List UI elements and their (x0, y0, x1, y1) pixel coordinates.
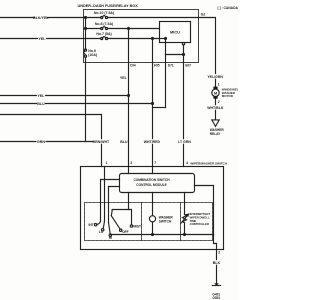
fuse No.7 (5A) (101, 37, 108, 40)
svg-text:F05: F05 (154, 63, 160, 67)
ground bus wire (110, 234, 213, 236)
bus wire below fuse No.9 down to GRN wire (85, 57, 87, 141)
junction node (bus tap on W1) (85, 17, 87, 19)
washer switch lower wire (152, 222, 154, 235)
svg-text:CONTROLLER: CONTROLLER (190, 222, 209, 226)
wire label YEL (mid) (37, 93, 45, 98)
svg-text:LT GRN: LT GRN (178, 140, 191, 144)
module bottom wire to controller (184, 193, 186, 215)
pivot-to-MIST link (112, 210, 131, 225)
wire W3 to MICU (107, 38, 159, 40)
svg-text:WHT/BLK: WHT/BLK (207, 106, 224, 110)
jog joining D-wire to pin7 wire (153, 107, 166, 109)
svg-text:UNDER–DASH FUSE/RELAY BOX: UNDER–DASH FUSE/RELAY BOX (78, 4, 139, 8)
dashed divider 2 (180, 203, 182, 241)
svg-text:YEL: YEL (39, 37, 47, 41)
fuse No.9 (10A) vertical (84, 49, 87, 57)
module left stub 1 (101, 180, 120, 222)
svg-text:OFF: OFF (122, 230, 128, 234)
svg-text:LO: LO (99, 230, 104, 234)
wire W3 stub into MICU with node (160, 38, 166, 40)
MICU bottom connector circle (182, 43, 184, 45)
svg-text:1: 1 (218, 82, 220, 86)
vertical wire x=152.5 (fuse No.7 to pin 7) (152, 39, 154, 167)
vertical bus wire x=85.5 (to fuse No.9) (85, 18, 87, 50)
washer switch circle (149, 216, 155, 222)
svg-text:D71: D71 (168, 63, 174, 67)
svg-text:[ ] : CANADA: [ ] : CANADA (218, 6, 239, 10)
svg-text:HI: HI (109, 236, 112, 240)
wire label BLK (212, 260, 221, 265)
wire label BLK/YEL (35, 15, 47, 20)
contact OFF (120, 229, 122, 231)
wire label GRN (bottom-left) (37, 139, 46, 144)
washer relay triangle (212, 120, 219, 127)
chassis ground symbol G401 (212, 283, 220, 285)
svg-text:4: 4 (186, 161, 188, 165)
svg-text:(10A): (10A) (88, 53, 97, 57)
svg-text:GRN/WHT: GRN/WHT (92, 140, 110, 144)
svg-text:G2: G2 (201, 12, 206, 16)
svg-text:BLK: BLK (213, 261, 221, 265)
svg-text:No.8 (7.5A): No.8 (7.5A) (95, 22, 113, 26)
svg-text:2: 2 (218, 251, 220, 255)
wire MICU branch to D-wire (166, 54, 184, 56)
svg-text:E07: E07 (185, 63, 191, 67)
svg-text:WHT/RED: WHT/RED (144, 140, 161, 144)
MICU box (160, 22, 191, 43)
svg-text:BLK/YEL: BLK/YEL (33, 16, 49, 20)
wire label YEL/GRN (208, 74, 222, 79)
wire mid BLU (0, 103, 153, 105)
wiper switch contact hooks (97, 221, 101, 224)
module left stub 2 (109, 187, 120, 223)
svg-text:BLU: BLU (120, 140, 128, 144)
svg-text:YEL: YEL (38, 94, 46, 98)
wire corner (left to pin 1) (0, 115, 102, 167)
svg-text:WIPER/WASHER SWITCH: WIPER/WASHER SWITCH (190, 161, 227, 165)
wiper arm pivot stem (110, 210, 113, 216)
svg-text:GRN: GRN (37, 140, 45, 144)
wire MICU output down to pin 4 (183, 45, 185, 167)
module right stub down to bus (195, 186, 214, 235)
module bottom wire to washer switch (152, 193, 154, 216)
svg-text:3: 3 (130, 161, 132, 165)
pin 3 wire into module (128, 167, 130, 174)
svg-text:MIST: MIST (133, 225, 141, 229)
svg-text:SWITCH: SWITCH (159, 219, 172, 223)
svg-text:2: 2 (218, 100, 220, 104)
wire W1 BLK/YEL (left to fuse No.10) (0, 17, 101, 19)
svg-text:No.7 (5A): No.7 (5A) (96, 32, 111, 36)
wire label YEL (top) (38, 36, 46, 41)
washer motor lower wire (215, 99, 217, 120)
wire label WHT/RED (145, 139, 159, 144)
dashed switch compartment box (85, 203, 213, 241)
washer motor top terminal (213, 87, 217, 89)
svg-text:No.10 (7.5A): No.10 (7.5A) (94, 11, 114, 15)
svg-text:MICU: MICU (170, 29, 180, 34)
pin 7 wire into module (152, 167, 154, 174)
wire W1 to G2 and down to washer motor (107, 18, 215, 87)
svg-text:G551: G551 (212, 296, 220, 300)
svg-text:MOTOR: MOTOR (222, 94, 234, 98)
wire label WHT/BLK (209, 105, 222, 110)
fuse No.8 (7.5A) (101, 27, 108, 30)
combination switch control module box (120, 174, 195, 193)
wire GRN (left) (0, 141, 102, 143)
wire W3 YEL (left to fuse No.7) (0, 38, 101, 40)
module bottom wire to MIST (128, 193, 130, 210)
svg-text:RELAY: RELAY (210, 132, 221, 136)
bus to ground exit wire (214, 235, 217, 284)
wire label LT GRN (179, 139, 190, 144)
svg-text:COMBINATION SWITCH: COMBINATION SWITCH (133, 178, 170, 182)
vertical wire x=128.5 (fuse No.8 to pin 3) (128, 29, 130, 167)
wire W2 (bus to fuse No.8) (86, 28, 101, 30)
contact MIST (130, 225, 132, 227)
wire mid YEL (0, 95, 129, 97)
svg-text:YEL: YEL (120, 76, 128, 80)
svg-text:1: 1 (106, 161, 108, 165)
wire label GRN/WHT (94, 139, 108, 144)
wire W2 to MICU (107, 28, 159, 30)
svg-text:C04: C04 (130, 63, 136, 67)
svg-text:INT: INT (88, 223, 93, 227)
contact INT (94, 224, 96, 226)
intermittent controller symbol (variable resistor) (181, 214, 189, 234)
wiper switch arm (111, 216, 120, 230)
washer motor body (212, 89, 219, 96)
svg-text:YEL/GRN: YEL/GRN (207, 75, 223, 79)
wire label BLU (mid) (37, 101, 45, 106)
washer motor bottom terminal (213, 96, 217, 98)
outer box WIPER/WASHER SWITCH (81, 167, 224, 250)
fuse No.10 (7.5A) (101, 16, 108, 19)
svg-text:7: 7 (154, 161, 156, 165)
contact LO (102, 229, 104, 231)
under-dash fuse/relay box (dashed) (84, 10, 199, 63)
svg-text:CONTROL MODULE: CONTROL MODULE (136, 183, 166, 187)
contact HI (109, 234, 111, 236)
D-wire vertical (165, 39, 167, 108)
pin 1 wire down to switch (104, 167, 106, 221)
svg-text:BLU: BLU (37, 102, 45, 106)
dashed divider 1 (141, 203, 143, 241)
